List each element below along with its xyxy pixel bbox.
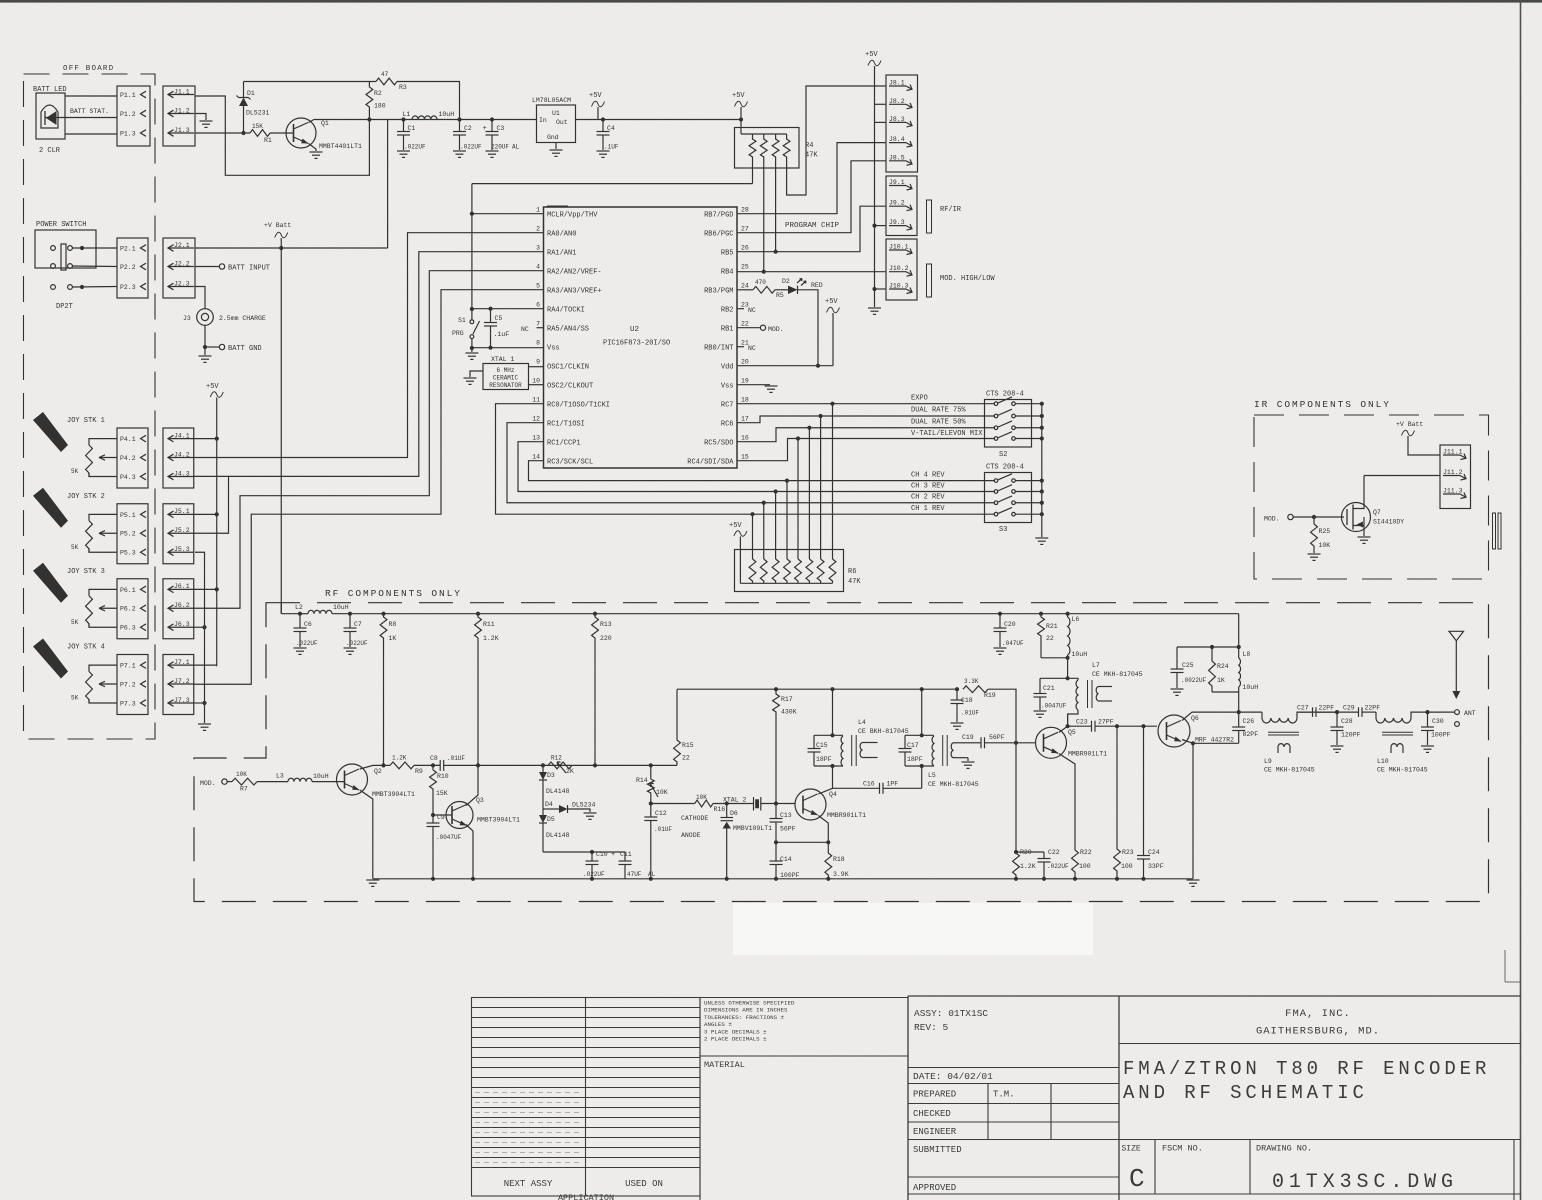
switch common rail to ground xyxy=(1041,404,1043,537)
svg-text:1.2K: 1.2K xyxy=(1020,863,1036,870)
svg-text:15: 15 xyxy=(741,454,749,461)
resistor R7 10K xyxy=(232,778,257,785)
svg-text:J1.3: J1.3 xyxy=(174,127,190,134)
joystick 3 handle icon xyxy=(33,563,68,603)
connector J8 programming header xyxy=(886,75,918,172)
svg-text:RA2/AN2/VREF-: RA2/AN2/VREF- xyxy=(547,269,602,277)
wire pole2 to P2.2 xyxy=(72,265,117,268)
svg-text:APPLICATION: APPLICATION xyxy=(558,1193,614,1200)
wire J4.3 to RA1 xyxy=(194,475,229,477)
capacitor C5 .1uF xyxy=(488,307,492,311)
connector P7 xyxy=(117,655,148,715)
svg-text:C3: C3 xyxy=(497,125,505,132)
tank L5 bottom xyxy=(905,765,934,767)
svg-text:J6.2: J6.2 xyxy=(174,602,190,609)
svg-text:L2: L2 xyxy=(295,604,303,611)
svg-text:+5V: +5V xyxy=(825,298,838,306)
svg-text:J10.1: J10.1 xyxy=(889,244,909,251)
ground below jack xyxy=(199,355,212,357)
svg-text:1.2K: 1.2K xyxy=(483,635,499,642)
svg-text:.022UF: .022UF xyxy=(583,871,605,878)
svg-text:J10.2: J10.2 xyxy=(889,265,909,272)
svg-text:C9: C9 xyxy=(437,814,445,821)
svg-text:P1.2: P1.2 xyxy=(120,111,136,118)
svg-text:OSC2/CLKOUT: OSC2/CLKOUT xyxy=(547,383,593,391)
svg-text:J7.3: J7.3 xyxy=(174,697,190,704)
svg-text:LM78L05ACM: LM78L05ACM xyxy=(532,97,571,104)
svg-text:J8.1: J8.1 xyxy=(889,80,905,87)
wire jack to BATT GND xyxy=(204,325,206,355)
svg-text:C1: C1 xyxy=(408,125,416,132)
svg-text:BATT GND: BATT GND xyxy=(228,345,262,353)
svg-text:.047UF: .047UF xyxy=(1002,640,1024,647)
oscillator line to Q4 xyxy=(651,803,695,805)
svg-text:CE MKH-817045: CE MKH-817045 xyxy=(928,781,979,788)
title block outline xyxy=(908,995,1521,997)
svg-text:L10: L10 xyxy=(1377,758,1389,765)
resistor R9 1.2K xyxy=(390,762,414,769)
svg-text:120PF: 120PF xyxy=(1341,732,1361,739)
svg-text:10uH: 10uH xyxy=(1243,684,1259,691)
svg-text:27PF: 27PF xyxy=(1098,719,1114,726)
svg-text:J3: J3 xyxy=(183,315,191,322)
svg-text:P2.1: P2.1 xyxy=(120,245,136,252)
wire J4.2 to RA0 xyxy=(194,233,544,458)
svg-text:DL5231: DL5231 xyxy=(246,110,270,117)
connector J6 xyxy=(163,579,194,639)
net CH 1 REV from RC0 xyxy=(496,404,996,515)
svg-text:6: 6 xyxy=(536,302,540,309)
svg-text:J4.3: J4.3 xyxy=(174,470,190,477)
svg-text:MOD.: MOD. xyxy=(1264,516,1280,523)
capacitor C23 27PF series xyxy=(1068,725,1092,727)
svg-text:.01UF: .01UF xyxy=(961,710,979,717)
capacitor C9 .0047UF xyxy=(432,815,434,823)
svg-text:CE MKH-817045: CE MKH-817045 xyxy=(1377,767,1428,774)
svg-text:AL: AL xyxy=(512,144,520,151)
Q2 emitter to ground rail xyxy=(360,790,373,879)
resistor R18 3.9K xyxy=(825,842,832,879)
svg-text:ASSY: 01TX1SC: ASSY: 01TX1SC xyxy=(914,1008,988,1019)
ground at J1.2 xyxy=(200,120,213,122)
svg-text:CHECKED: CHECKED xyxy=(913,1109,951,1119)
wire S1 to RA4 pin 6 xyxy=(472,308,544,310)
+5V output wire xyxy=(576,119,742,121)
svg-text:5: 5 xyxy=(536,283,540,290)
svg-text:+5V: +5V xyxy=(729,522,742,530)
svg-text:XTAL 2: XTAL 2 xyxy=(723,797,747,804)
MOD. output from RB1 xyxy=(737,327,760,329)
svg-text:R18: R18 xyxy=(833,856,845,863)
svg-text:RF COMPONENTS ONLY: RF COMPONENTS ONLY xyxy=(325,588,462,599)
svg-text:R6: R6 xyxy=(848,568,856,576)
svg-text:5K: 5K xyxy=(71,544,79,551)
wire RB4 to J10.2 xyxy=(737,271,886,273)
connector P2 xyxy=(117,238,148,298)
svg-text:15K: 15K xyxy=(436,790,448,797)
svg-text:+V Batt: +V Batt xyxy=(1396,421,1423,428)
svg-text:17: 17 xyxy=(741,416,749,423)
connector J9 xyxy=(886,176,917,236)
ground at XTAL1 xyxy=(470,371,483,377)
svg-text:Out: Out xyxy=(556,119,568,126)
svg-text:R22: R22 xyxy=(1080,849,1092,856)
LED D2 RED xyxy=(775,289,788,291)
svg-text:P1.3: P1.3 xyxy=(120,130,136,137)
svg-text:RESONATOR: RESONATOR xyxy=(489,382,522,389)
wire J1.2 to ground xyxy=(195,114,206,121)
svg-text:.022UF: .022UF xyxy=(460,144,482,151)
svg-text:MMBV109LT1: MMBV109LT1 xyxy=(733,825,772,832)
svg-text:MOD.: MOD. xyxy=(768,326,784,333)
svg-text:22PF: 22PF xyxy=(1319,705,1335,712)
svg-text:P5.1: P5.1 xyxy=(120,512,136,519)
svg-text:220: 220 xyxy=(600,635,612,642)
svg-text:RC3/SCK/SCL: RC3/SCK/SCL xyxy=(547,459,593,467)
wire pole3 to P2.3 xyxy=(72,286,117,289)
svg-text:C29: C29 xyxy=(1343,705,1355,712)
capacitor C27 22PF series xyxy=(1300,711,1313,713)
svg-text:PIC16F873-20I/SO: PIC16F873-20I/SO xyxy=(603,340,670,348)
svg-text:Q1: Q1 xyxy=(321,120,329,127)
svg-text:22PF: 22PF xyxy=(1365,705,1381,712)
svg-text:Q2: Q2 xyxy=(374,768,382,775)
svg-text:.01UF: .01UF xyxy=(447,755,465,762)
svg-text:BATT INPUT: BATT INPUT xyxy=(228,265,270,273)
inductor L8 10uH xyxy=(1238,614,1240,658)
+5V joystick rail xyxy=(216,398,218,667)
svg-text:CERAMIC: CERAMIC xyxy=(493,375,519,382)
wire J7.2 to RA3 xyxy=(194,290,544,685)
svg-text:RC7: RC7 xyxy=(721,402,734,410)
svg-text:OSC1/CLKIN: OSC1/CLKIN xyxy=(547,364,589,372)
feedback capacitor C16 1PF xyxy=(921,766,923,788)
svg-text:C24: C24 xyxy=(1148,849,1160,856)
svg-text:RB6/PGC: RB6/PGC xyxy=(704,231,733,239)
svg-text:J4.2: J4.2 xyxy=(174,451,190,458)
wire to ANT terminal xyxy=(1428,711,1455,713)
svg-text:PREPARED: PREPARED xyxy=(913,1090,956,1100)
wire J1.1 loop to Q1 collector node xyxy=(195,96,369,175)
svg-text:CE BKH-817045: CE BKH-817045 xyxy=(858,728,909,735)
wire J6.1 to +5V rail xyxy=(194,588,217,590)
svg-text:PRG: PRG xyxy=(452,330,464,337)
svg-text:REV: 5: REV: 5 xyxy=(914,1022,949,1033)
svg-text:20: 20 xyxy=(741,359,749,366)
connector P1 xyxy=(117,86,150,146)
svg-text:CE MKH-817045: CE MKH-817045 xyxy=(1264,767,1315,774)
svg-text:J2.3: J2.3 xyxy=(174,280,190,287)
svg-text:D3: D3 xyxy=(547,772,555,779)
capacitor C17 18PF xyxy=(904,735,906,748)
svg-text:100: 100 xyxy=(1079,863,1091,870)
svg-text:J4.1: J4.1 xyxy=(174,432,190,439)
capacitor C3 220UF AL electrolytic xyxy=(490,117,494,121)
svg-text:Vdd: Vdd xyxy=(721,364,734,372)
svg-text:C2: C2 xyxy=(464,125,472,132)
svg-text:16: 16 xyxy=(741,435,749,442)
svg-text:01TX3SC.DWG: 01TX3SC.DWG xyxy=(1272,1171,1458,1194)
capacitor C20 .047UF xyxy=(998,612,1002,616)
svg-text:10uH: 10uH xyxy=(439,111,455,118)
svg-text:APPROVED: APPROVED xyxy=(913,1183,956,1193)
svg-text:J9.2: J9.2 xyxy=(889,200,905,207)
transistor Q1 MMBT4401LT1 xyxy=(286,118,316,148)
svg-text:C14: C14 xyxy=(780,856,792,863)
potentiometer 5K stick 1 xyxy=(89,439,117,445)
svg-text:R9: R9 xyxy=(415,768,423,775)
svg-text:C5: C5 xyxy=(495,315,503,322)
wire to Q3 base xyxy=(433,814,452,816)
svg-text:NC: NC xyxy=(748,345,756,352)
svg-text:C4: C4 xyxy=(607,125,615,132)
svg-text:3.9K: 3.9K xyxy=(833,871,849,878)
svg-text:33PF: 33PF xyxy=(1148,863,1164,870)
wire C26 to emitter node xyxy=(1193,742,1239,744)
svg-text:J8.5: J8.5 xyxy=(889,154,905,161)
svg-text:ANGLES ±: ANGLES ± xyxy=(704,1021,732,1028)
capacitor C1 .022UF xyxy=(401,117,405,121)
svg-text:C18: C18 xyxy=(961,697,973,704)
svg-text:J1.1: J1.1 xyxy=(174,88,190,95)
resistor R8 1K xyxy=(381,612,385,616)
R4 leg to Vpp line xyxy=(752,162,754,184)
svg-text:10K: 10K xyxy=(696,794,707,801)
svg-text:C22: C22 xyxy=(1048,849,1060,856)
svg-text:MMBT4401LT1: MMBT4401LT1 xyxy=(319,143,362,150)
svg-text:R12: R12 xyxy=(551,755,562,762)
capacitor C6 .022UF xyxy=(299,614,301,628)
svg-text:L7: L7 xyxy=(1092,662,1100,669)
svg-text:D2: D2 xyxy=(782,278,790,285)
capacitor C18 .01UF xyxy=(955,687,959,691)
svg-text:12: 12 xyxy=(532,416,540,423)
Q6 collector to output node xyxy=(1182,712,1239,720)
resistor network R6 47K xyxy=(735,550,844,592)
svg-text:C23: C23 xyxy=(1076,719,1088,726)
svg-text:NC: NC xyxy=(748,307,756,314)
svg-text:2: 2 xyxy=(536,226,540,233)
RF/IR select bar xyxy=(927,200,932,233)
svg-text:SI4410DY: SI4410DY xyxy=(1373,519,1404,526)
svg-text:56PF: 56PF xyxy=(780,826,796,833)
svg-text:D6: D6 xyxy=(730,810,738,817)
wire J7.1 to +5V rail xyxy=(194,664,217,666)
wire battery + rail down from filter line to J2.1 xyxy=(387,120,389,249)
svg-text:JOY STK 4: JOY STK 4 xyxy=(67,644,105,652)
connector P6 xyxy=(117,579,148,639)
svg-text:82PF: 82PF xyxy=(1243,731,1259,738)
svg-text:13: 13 xyxy=(532,435,540,442)
switch contacts xyxy=(51,246,56,251)
svg-text:L8: L8 xyxy=(1243,651,1251,658)
svg-text:P4.3: P4.3 xyxy=(120,474,136,481)
svg-text:J6.1: J6.1 xyxy=(174,583,190,590)
svg-text:UNLESS OTHERWISE SPECIFIED: UNLESS OTHERWISE SPECIFIED xyxy=(704,1000,795,1007)
svg-text:JOY STK 2: JOY STK 2 xyxy=(67,493,105,501)
svg-text:AL: AL xyxy=(648,871,656,878)
svg-text:10uH: 10uH xyxy=(313,773,329,780)
sheet top edge band xyxy=(0,0,1542,3)
bias rail xyxy=(677,688,957,690)
svg-text:100: 100 xyxy=(1121,863,1133,870)
svg-text:18: 18 xyxy=(741,397,749,404)
svg-text:P4.1: P4.1 xyxy=(120,436,136,443)
node C13 C14 R18 xyxy=(774,840,778,844)
svg-text:P7.3: P7.3 xyxy=(120,700,136,707)
svg-text:J8.3: J8.3 xyxy=(889,116,905,123)
svg-text:470: 470 xyxy=(755,279,766,286)
svg-text:J11.1: J11.1 xyxy=(1443,449,1463,456)
svg-text:2K: 2K xyxy=(566,768,574,775)
svg-text:C28: C28 xyxy=(1341,718,1353,725)
resistor R23 100 xyxy=(1116,726,1118,847)
svg-text:USED ON: USED ON xyxy=(625,1179,663,1189)
svg-text:OFF BOARD: OFF BOARD xyxy=(63,65,114,73)
revision table xyxy=(472,998,701,1197)
svg-text:10K: 10K xyxy=(1319,542,1331,549)
svg-text:L6: L6 xyxy=(1072,616,1080,623)
svg-text:RB5: RB5 xyxy=(721,250,734,258)
inductor L2 10uH xyxy=(298,612,302,616)
potentiometer 5K stick 4 xyxy=(89,665,117,671)
connector P4 xyxy=(117,428,148,488)
svg-text:3 PLACE DECIMALS ±: 3 PLACE DECIMALS ± xyxy=(704,1028,767,1035)
resistor R22 100 xyxy=(1072,849,1079,879)
svg-text:L9: L9 xyxy=(1264,758,1272,765)
LED D-batt box xyxy=(36,93,65,139)
svg-text:J5.3: J5.3 xyxy=(174,546,190,553)
svg-text:.022UF: .022UF xyxy=(404,144,426,151)
svg-text:+5V: +5V xyxy=(206,383,219,391)
svg-text:J5.2: J5.2 xyxy=(174,527,190,534)
svg-text:2.5mm CHARGE: 2.5mm CHARGE xyxy=(219,315,266,322)
svg-text:+: + xyxy=(611,851,615,859)
svg-text:AND RF SCHEMATIC: AND RF SCHEMATIC xyxy=(1123,1082,1368,1104)
svg-text:10K: 10K xyxy=(236,771,247,778)
capacitor C11 47UF AL electrolytic xyxy=(624,852,626,861)
svg-text:28: 28 xyxy=(741,207,749,214)
svg-text:P5.3: P5.3 xyxy=(120,550,136,557)
Q5 collector to L7 xyxy=(1059,714,1068,733)
svg-text:1PF: 1PF xyxy=(887,781,899,788)
svg-text:26: 26 xyxy=(741,245,749,252)
svg-text:R25: R25 xyxy=(1319,528,1331,535)
svg-text:C13: C13 xyxy=(780,812,792,819)
svg-text:CTS 208-4: CTS 208-4 xyxy=(986,391,1024,399)
svg-text:11: 11 xyxy=(532,397,540,404)
wires XTAL1 to OSC pins xyxy=(529,366,544,368)
svg-text:IR COMPONENTS ONLY: IR COMPONENTS ONLY xyxy=(1254,399,1391,410)
svg-text:R8: R8 xyxy=(389,621,397,628)
svg-text:R11: R11 xyxy=(483,621,495,628)
svg-text:47: 47 xyxy=(381,71,389,78)
svg-text:L5: L5 xyxy=(928,772,936,779)
wire J2.1 battery + xyxy=(195,247,388,249)
svg-text:MMBT3904LT1: MMBT3904LT1 xyxy=(372,791,415,798)
Q2 collector wire xyxy=(360,765,384,769)
svg-text:.022UF: .022UF xyxy=(296,640,318,647)
diode D3 DL4148 xyxy=(541,763,545,767)
svg-text:47K: 47K xyxy=(848,578,861,586)
svg-text:P6.3: P6.3 xyxy=(120,625,136,632)
svg-text:MOD.: MOD. xyxy=(200,780,216,787)
svg-text:C20: C20 xyxy=(1004,621,1016,628)
capacitor C14 100PF xyxy=(775,842,777,861)
svg-text:C6: C6 xyxy=(304,621,312,628)
capacitor C12 .01UF xyxy=(650,804,652,818)
svg-text:10uH: 10uH xyxy=(1072,651,1088,658)
wire Q7 drain to J11.2 xyxy=(1364,475,1440,477)
svg-text:P2.3: P2.3 xyxy=(120,284,136,291)
svg-text:RB2: RB2 xyxy=(721,307,734,315)
antenna symbol xyxy=(1449,631,1464,641)
svg-text:C10: C10 xyxy=(596,851,608,858)
svg-text:J2.2: J2.2 xyxy=(174,260,190,267)
svg-text:RC1/CCP1: RC1/CCP1 xyxy=(547,440,581,448)
resistor R25 10K xyxy=(1313,517,1315,524)
capacitor C10 .022UF xyxy=(591,852,593,861)
tank L4 bottom xyxy=(814,765,843,767)
svg-text:P6.1: P6.1 xyxy=(120,587,136,594)
svg-text:DP2T: DP2T xyxy=(56,303,73,311)
svg-text:18PF: 18PF xyxy=(816,756,832,763)
ground below S1 xyxy=(471,348,473,352)
svg-text:4: 4 xyxy=(536,264,540,271)
svg-text:2 CLR: 2 CLR xyxy=(39,147,61,155)
svg-text:P2.2: P2.2 xyxy=(120,264,136,271)
svg-text:J8.4: J8.4 xyxy=(889,136,905,143)
svg-text:NEXT ASSY: NEXT ASSY xyxy=(504,1179,553,1189)
svg-text:R21: R21 xyxy=(1046,623,1058,630)
svg-text:J5.1: J5.1 xyxy=(174,508,190,515)
svg-text:MCLR/Vpp/THV: MCLR/Vpp/THV xyxy=(547,212,598,220)
svg-text:C12: C12 xyxy=(655,810,667,817)
resistor R19 3.3K xyxy=(963,686,988,693)
svg-text:P4.2: P4.2 xyxy=(120,455,136,462)
svg-text:CH 2 REV: CH 2 REV xyxy=(911,494,945,502)
wire LED to P1.3 xyxy=(65,133,117,135)
resistor R5 470 xyxy=(737,289,753,291)
net CH 3 REV from pin 13 xyxy=(518,442,995,492)
svg-text:R15: R15 xyxy=(682,742,694,749)
svg-text:Q6: Q6 xyxy=(1191,715,1199,722)
variable resistor R12 2K xyxy=(548,762,572,769)
tank L5 top xyxy=(905,734,934,736)
svg-text:J9.3: J9.3 xyxy=(889,219,905,226)
svg-text:C19: C19 xyxy=(962,734,974,741)
svg-text:5K: 5K xyxy=(71,619,79,626)
svg-text:R7: R7 xyxy=(240,786,248,793)
capacitor C15 18PF xyxy=(813,735,815,748)
joystick 2 handle icon xyxy=(33,488,68,528)
svg-text:CE MKH-817045: CE MKH-817045 xyxy=(1092,671,1143,678)
capacitor C24 33PF xyxy=(1143,726,1145,855)
net V-TAIL/ELEVON MIX from pin 15 xyxy=(737,439,995,461)
resistor R21 22 xyxy=(1039,612,1043,616)
svg-text:RB3/PGM: RB3/PGM xyxy=(704,288,733,296)
resistor R13 220 xyxy=(593,612,597,616)
title block bottom row xyxy=(908,1193,1521,1195)
svg-text:C26: C26 xyxy=(1243,718,1255,725)
svg-text:C17: C17 xyxy=(907,742,919,749)
IR section dashed boundary xyxy=(1254,415,1489,579)
svg-text:47K: 47K xyxy=(805,152,818,160)
net DUAL RATE 75% from pin 17 xyxy=(737,416,995,423)
sheet right border line xyxy=(1520,0,1522,1200)
capacitor C25 .0022UF xyxy=(1177,646,1239,648)
wire J6.2 to RA2 xyxy=(194,271,544,609)
